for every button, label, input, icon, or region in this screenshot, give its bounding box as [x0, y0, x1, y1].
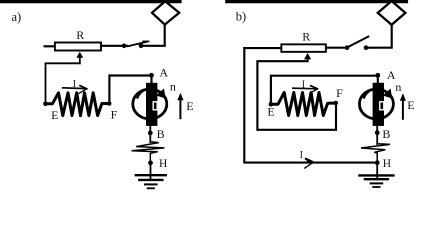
svg-text:I: I: [300, 150, 303, 161]
svg-text:B: B: [157, 127, 165, 141]
svg-text:F: F: [336, 86, 343, 100]
svg-text:R: R: [76, 28, 84, 42]
svg-text:I: I: [73, 79, 76, 90]
svg-text:a): a): [12, 10, 22, 24]
svg-text:n: n: [395, 80, 401, 94]
svg-text:b): b): [236, 10, 246, 24]
svg-text:F: F: [111, 108, 118, 122]
svg-text:B: B: [382, 127, 390, 141]
svg-text:E: E: [186, 99, 193, 113]
svg-text:A: A: [159, 66, 168, 80]
svg-text:E: E: [51, 108, 58, 122]
svg-text:H: H: [159, 158, 167, 170]
svg-text:H: H: [383, 158, 391, 170]
svg-text:n: n: [170, 79, 176, 93]
svg-text:E: E: [267, 105, 274, 119]
svg-text:E: E: [407, 98, 414, 112]
svg-text:R: R: [302, 29, 310, 43]
svg-text:I: I: [302, 79, 305, 90]
